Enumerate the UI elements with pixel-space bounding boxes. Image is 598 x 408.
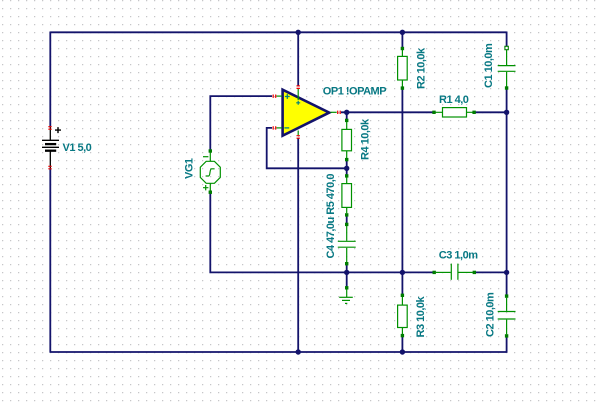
node junction bottom op-amp supply	[296, 349, 301, 354]
svg-text:R1 4,0: R1 4,0	[439, 94, 469, 106]
resistor R4 top pad	[345, 119, 348, 122]
generator VG1	[200, 151, 220, 192]
op-amp V+ pin mark	[297, 86, 300, 89]
svg-text:C2 10,0m: C2 10,0m	[485, 292, 497, 337]
wire op-amp positive supply drop	[297, 32, 299, 85]
resistor R3	[398, 297, 408, 334]
node junction top R2	[400, 30, 405, 35]
resistor R1	[435, 108, 474, 117]
wire R1 right to right rail	[474, 111, 507, 113]
svg-text:V1 5,0: V1 5,0	[63, 142, 92, 154]
capacitor C3	[436, 264, 473, 280]
wire mid row to C2	[506, 272, 508, 296]
ground pad	[345, 286, 348, 289]
op-amp V+ pin stub	[297, 88, 299, 100]
op-amp - input pin mark	[273, 126, 276, 129]
node junction top op-amp supply	[296, 30, 301, 35]
wire VG1 top to op-amp + input	[210, 96, 272, 151]
svg-text:R4 10,0k: R4 10,0k	[360, 118, 372, 160]
node junction output	[344, 110, 349, 115]
wire R2 bottom to mid row crossing R1 row	[401, 88, 403, 272]
wire R5 top stub	[346, 168, 348, 176]
svg-text:C1 10,0m: C1 10,0m	[483, 43, 495, 88]
svg-text:VG1: VG1	[184, 158, 196, 179]
node junction C4 ground mid row	[344, 270, 349, 275]
node junction feedback R4 R5	[344, 166, 349, 171]
op-amp - input stub	[276, 127, 282, 129]
op-amp U1 triangle	[283, 90, 330, 136]
wire R3 top stub	[401, 272, 403, 295]
op-amp + input pin mark	[273, 95, 276, 98]
capacitor C1 top pad	[505, 46, 508, 49]
ground	[339, 290, 353, 304]
wire left rail upper (battery top)	[49, 32, 51, 128]
wire VG1 bottom to mid row	[210, 192, 346, 272]
op-amp V- pin stub	[297, 131, 299, 136]
capacitor C2	[498, 298, 516, 335]
op-amp - input marker	[284, 127, 289, 129]
battery V1 top pin mark	[48, 127, 51, 130]
wire C4 bottom to mid row	[346, 264, 348, 273]
resistor R5 top pad	[345, 174, 348, 177]
wire top rail	[50, 31, 506, 33]
capacitor C1	[498, 50, 516, 88]
resistor R5 bottom pad	[345, 213, 348, 216]
resistor R3 top pad	[401, 294, 404, 297]
capacitor C2 top pad	[505, 294, 508, 297]
capacitor C4 bottom pad	[345, 262, 348, 265]
wire R3 bottom stub	[401, 336, 403, 352]
wire mid row R3 junction to C3	[347, 271, 433, 273]
svg-text:C3 1,0m: C3 1,0m	[439, 250, 478, 262]
battery V1 bottom pin mark	[48, 166, 51, 169]
svg-text:C4 47,0u R5 470,0: C4 47,0u R5 470,0	[325, 174, 337, 259]
wire bottom rail	[50, 351, 507, 353]
wire left rail lower (battery bottom)	[49, 169, 51, 353]
resistor R1 right pad	[472, 111, 475, 114]
capacitor C3 left pad	[433, 271, 436, 274]
capacitor C2 bottom pad	[505, 334, 508, 337]
wire R2 branch top	[401, 32, 403, 48]
node junction bottom R3	[400, 349, 405, 354]
wire op-amp output to R1 row	[341, 111, 434, 113]
generator VG1 bottom pad	[209, 191, 212, 194]
wire C1 bottom to mid row	[506, 88, 508, 272]
capacitor C4 top pad	[345, 223, 348, 226]
capacitor C3 right pad	[473, 271, 476, 274]
node junction C3 right rail	[504, 270, 509, 275]
node junction R1 right rail	[504, 110, 509, 115]
wire C3 right to right rail	[475, 271, 506, 273]
resistor R2 top pad	[401, 47, 404, 50]
op-amp V- pin mark	[297, 136, 300, 139]
resistor R4	[342, 122, 352, 158]
resistor R3 bottom pad	[401, 334, 404, 337]
battery V1	[42, 127, 61, 169]
wire op-amp negative supply drop	[297, 138, 299, 352]
resistor R1 left pad	[432, 111, 435, 114]
resistor R2 bottom pad	[401, 86, 404, 89]
op-amp output pin mark	[338, 111, 341, 114]
wire feedback loop from - input	[267, 128, 347, 168]
wire right rail top corner to C1	[506, 32, 508, 49]
svg-text:R3 10,0k: R3 10,0k	[415, 295, 427, 337]
svg-text:OP1 !OPAMP: OP1 !OPAMP	[323, 86, 386, 98]
wire R4 bottom to feedback junction	[346, 160, 348, 169]
op-amp + input marker	[285, 94, 290, 99]
wire C2 bottom to bottom rail	[506, 336, 508, 353]
resistor R2	[398, 50, 408, 87]
node junction R3 mid row	[400, 270, 405, 275]
op-amp + input stub	[276, 95, 282, 97]
generator VG1 top pad	[209, 149, 212, 152]
wire ground stub	[346, 272, 348, 287]
capacitor C4	[338, 226, 356, 262]
capacitor C1 bottom pad	[505, 86, 508, 89]
op-amp output stub	[331, 111, 337, 113]
resistor R4 bottom pad	[345, 158, 348, 161]
op-amp V+ marker	[296, 101, 300, 105]
wire R5 bottom to C4 top	[346, 215, 348, 225]
wire R4 top stub	[346, 112, 348, 120]
svg-text:R2 10,0k: R2 10,0k	[416, 47, 428, 89]
resistor R5	[342, 178, 352, 214]
